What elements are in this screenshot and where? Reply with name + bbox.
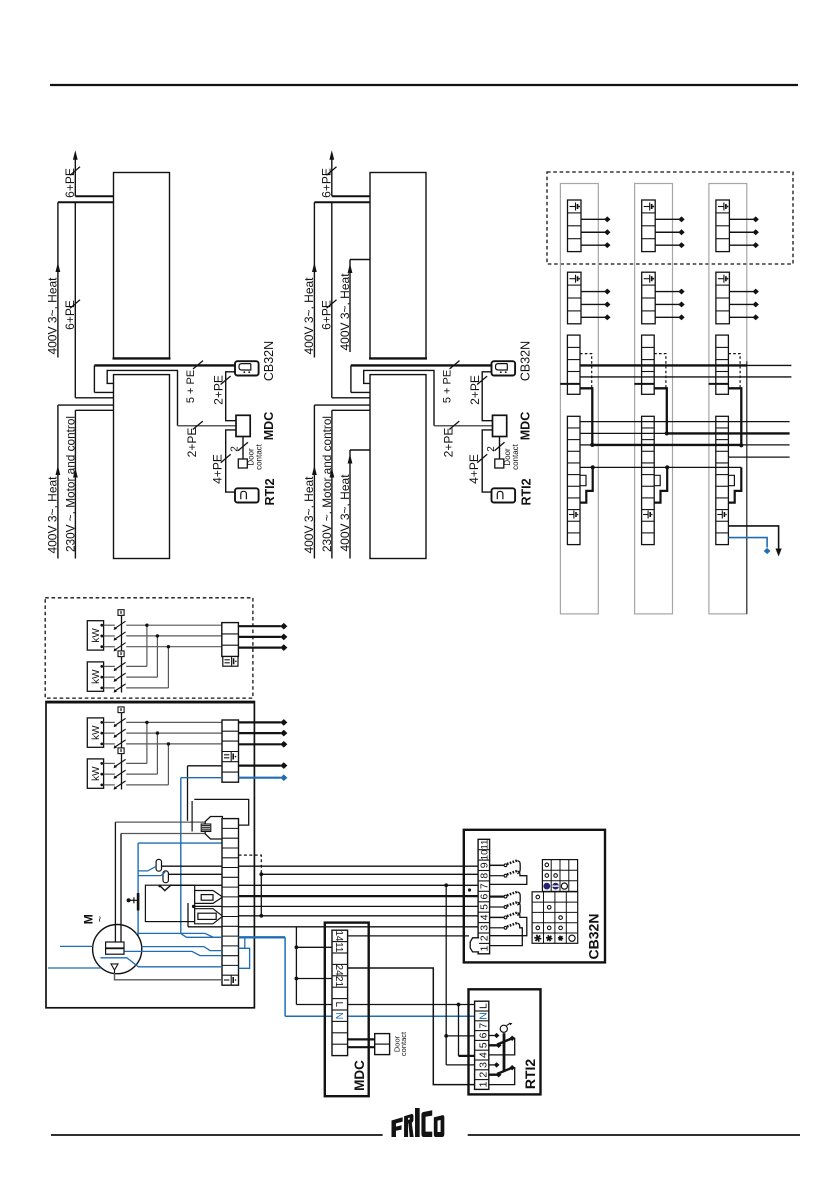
svg-text:2: 2 — [477, 1072, 489, 1078]
svg-text:1: 1 — [477, 1081, 489, 1087]
svg-text:MDC: MDC — [352, 1060, 367, 1091]
svg-text:L: L — [477, 1003, 489, 1009]
svg-text:2+PE: 2+PE — [212, 375, 226, 405]
svg-text:6+PE: 6+PE — [63, 168, 77, 198]
svg-text:4: 4 — [478, 914, 490, 920]
svg-text:9: 9 — [478, 862, 490, 868]
svg-text:7: 7 — [478, 883, 490, 889]
svg-text:230V ~, Motor and control: 230V ~, Motor and control — [63, 416, 77, 552]
svg-text:14: 14 — [333, 930, 344, 942]
svg-text:5: 5 — [477, 1042, 489, 1048]
svg-text:4+PE: 4+PE — [211, 454, 225, 484]
svg-text:7: 7 — [477, 1023, 489, 1029]
svg-text:kW: kW — [91, 669, 102, 684]
svg-text:400V 3~, Heat: 400V 3~, Heat — [45, 277, 59, 355]
svg-text:5: 5 — [478, 904, 490, 910]
svg-text:RTI2: RTI2 — [263, 478, 277, 505]
svg-text:~: ~ — [95, 916, 107, 922]
svg-text:2+PE: 2+PE — [185, 428, 199, 458]
svg-text:L: L — [333, 1002, 344, 1008]
svg-text:kW: kW — [91, 766, 102, 781]
svg-text:10: 10 — [479, 850, 490, 861]
svg-text:1: 1 — [478, 946, 490, 952]
svg-text:6: 6 — [477, 1032, 489, 1038]
svg-text:400V 3~, Heat: 400V 3~, Heat — [338, 474, 352, 552]
svg-text:3: 3 — [477, 1062, 489, 1068]
svg-text:11: 11 — [479, 840, 490, 850]
svg-text:2: 2 — [478, 935, 490, 941]
svg-text:MDC: MDC — [262, 412, 276, 440]
svg-text:contact: contact — [399, 1031, 408, 1056]
svg-text:6+PE: 6+PE — [63, 300, 77, 330]
svg-text:contact: contact — [255, 443, 264, 470]
svg-text:CB32N: CB32N — [586, 914, 602, 960]
svg-text:M: M — [81, 914, 95, 924]
svg-text:3: 3 — [478, 925, 490, 931]
svg-text:N: N — [333, 1012, 344, 1019]
svg-text:CB32N: CB32N — [262, 341, 276, 381]
svg-text:21: 21 — [333, 976, 344, 988]
svg-text:8: 8 — [478, 873, 490, 879]
svg-text:24: 24 — [333, 965, 344, 977]
svg-text:kW: kW — [91, 725, 102, 740]
svg-text:N: N — [477, 1012, 489, 1020]
svg-text:2: 2 — [230, 446, 241, 452]
svg-text:5 + PE: 5 + PE — [185, 370, 197, 403]
svg-text:6: 6 — [478, 893, 490, 899]
svg-text:400V 3~, Heat: 400V 3~, Heat — [338, 273, 352, 351]
svg-text:11: 11 — [333, 942, 344, 953]
svg-text:kW: kW — [91, 628, 102, 643]
svg-text:4: 4 — [477, 1052, 489, 1058]
svg-text:RTI2: RTI2 — [522, 1059, 538, 1090]
svg-text:400V 3~, Heat: 400V 3~, Heat — [45, 476, 59, 554]
